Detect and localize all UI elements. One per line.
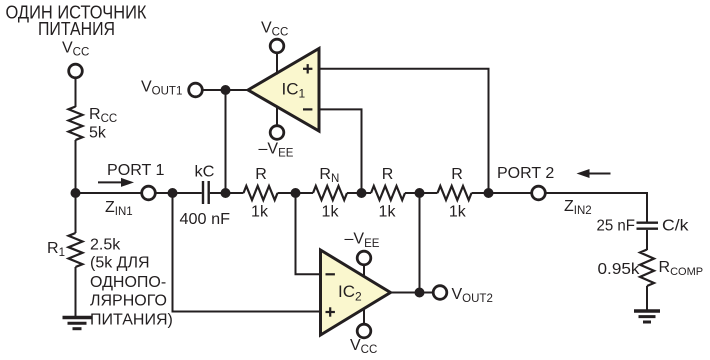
wire PORT1 terminal to node: [155, 192, 172, 194]
pin + of IC1: [303, 64, 312, 73]
capacitor kC plates: [203, 181, 209, 204]
wire to capacitor kC: [173, 192, 202, 194]
svg-text:VCC: VCC: [62, 39, 89, 58]
op-amp IC1 body: [248, 49, 319, 132]
svg-text:1k: 1k: [322, 204, 340, 221]
wire resistor R (first) to node: [278, 192, 296, 194]
wire to resistor R (first): [226, 192, 244, 194]
wire R1 to ground: [75, 267, 77, 317]
svg-text:(5k ДЛЯ: (5k ДЛЯ: [90, 255, 150, 272]
svg-text:R: R: [255, 166, 267, 183]
resistor RCOMP: [640, 250, 654, 287]
wire to resistor R (third): [362, 192, 372, 194]
wire node to IC2 + input: [173, 193, 321, 312]
wire main: node to PORT1 terminal: [76, 192, 143, 194]
pin + of IC2: [326, 307, 335, 316]
wire to resistor RN: [296, 192, 314, 194]
svg-text:RN: RN: [319, 166, 339, 185]
svg-text:RCC: RCC: [89, 106, 117, 125]
node on VOUT1 wire: [221, 85, 231, 95]
node at x=488: [484, 188, 494, 198]
label R1 value 2.5k multiline: [90, 236, 173, 328]
svg-text:VCC: VCC: [261, 20, 288, 39]
svg-text:ZIN1: ZIN1: [105, 199, 133, 218]
svg-text:ПИТАНИЯ: ПИТАНИЯ: [38, 19, 115, 39]
ground (right): [634, 311, 660, 322]
svg-text:kC: kC: [195, 164, 215, 181]
resistor RN: [313, 186, 347, 200]
svg-text:C/k: C/k: [662, 218, 690, 235]
wire PORT2 node to terminal: [489, 192, 533, 194]
node at x=296: [291, 188, 301, 198]
svg-text:–VEE: –VEE: [259, 141, 294, 160]
svg-text:PORT 2: PORT 2: [497, 165, 554, 182]
node ZIN1 junction: [71, 188, 81, 198]
resistor R (first): [244, 186, 278, 200]
node at x=420: [415, 188, 425, 198]
node: branch up to VOUT1: [221, 188, 231, 198]
svg-text:ПИТАНИЯ): ПИТАНИЯ): [90, 311, 173, 328]
terminal VCC top-left: [69, 64, 83, 78]
wire RCC to node ZIN1: [75, 140, 77, 193]
pin - of IC2: [326, 273, 335, 275]
arrow PORT 1 (pointing right): [98, 178, 134, 187]
ground (left): [63, 318, 92, 329]
svg-text:RCOMP: RCOMP: [659, 259, 704, 278]
terminal PORT2 / ZIN2: [532, 186, 546, 200]
pin - of IC1: [303, 108, 312, 110]
terminal PORT1 / ZIN1: [142, 186, 156, 200]
resistor R (third): [371, 186, 405, 200]
svg-text:R: R: [451, 166, 463, 183]
svg-text:ОДНОПО-: ОДНОПО-: [90, 274, 166, 291]
wire IC2 output node up to main line: [419, 193, 421, 293]
wire RCOMP to ground: [646, 286, 648, 311]
wire IC1 - input down to chain node: [319, 109, 362, 193]
node at x=362: [357, 188, 367, 198]
wire VOUT1 terminal to IC1 output: [202, 89, 248, 91]
svg-text:R1: R1: [47, 240, 65, 259]
terminal VOUT2: [433, 286, 447, 300]
resistor R1: [69, 233, 83, 267]
svg-text:5k: 5k: [89, 125, 107, 142]
svg-text:400 nF: 400 nF: [180, 211, 231, 228]
svg-text:ZIN2: ZIN2: [564, 198, 592, 217]
wire resistor R (fourth) to node: [472, 192, 489, 194]
wire node to R1: [75, 193, 77, 233]
op-amp IC2 body: [321, 250, 391, 335]
wire IC1 to -VEE terminal: [276, 106, 278, 126]
terminal VOUT1: [189, 83, 203, 97]
capacitor C/k plates: [637, 223, 659, 229]
svg-text:ЛЯРНОГО: ЛЯРНОГО: [90, 293, 167, 310]
resistor R (fourth): [438, 186, 472, 200]
wire node to IC2 - input: [296, 193, 321, 274]
wire capacitor to RCOMP: [646, 230, 648, 250]
svg-text:VOUT2: VOUT2: [452, 286, 493, 305]
svg-text:VOUT1: VOUT1: [141, 78, 182, 97]
wire IC2 output to VOUT2: [391, 292, 434, 294]
svg-text:2.5k: 2.5k: [90, 236, 121, 253]
svg-text:0.95k: 0.95k: [598, 261, 641, 278]
node: branch to IC2 + input: [168, 188, 178, 198]
wire capacitor to node VOUT1 branch: [210, 192, 226, 194]
wire to resistor R (fourth): [420, 192, 438, 194]
node on IC2 output: [415, 288, 425, 298]
svg-text:1k: 1k: [379, 204, 397, 221]
wire VCC terminal to IC1: [276, 53, 278, 75]
svg-text:1k: 1k: [251, 204, 269, 221]
wire resistor RN to node: [347, 192, 362, 194]
terminal -VEE of IC1: [270, 126, 284, 140]
svg-text:R: R: [382, 166, 394, 183]
wire VOUT1 node down to main line: [225, 90, 227, 193]
resistor RCC: [69, 107, 83, 141]
svg-text:–VEE: –VEE: [345, 231, 380, 250]
wire VCC to RCC: [75, 78, 77, 107]
wire IC1 + input to PORT2 node: [319, 69, 489, 193]
svg-text:VCC: VCC: [350, 337, 377, 356]
terminal -VEE of IC2: [357, 251, 371, 265]
wire -VEE terminal to IC2: [363, 265, 365, 277]
terminal VCC of IC2: [357, 324, 371, 338]
svg-text:1k: 1k: [449, 204, 467, 221]
wire IC2 to VCC terminal: [363, 309, 365, 325]
wire resistor R (third) to node: [405, 192, 420, 194]
wire PORT2 terminal to right corner and down: [545, 193, 647, 222]
svg-text:25 nF: 25 nF: [597, 218, 636, 235]
svg-text:PORT 1: PORT 1: [107, 162, 165, 179]
terminal VCC of IC1: [270, 39, 284, 53]
arrow PORT 2 (pointing left): [577, 169, 611, 178]
